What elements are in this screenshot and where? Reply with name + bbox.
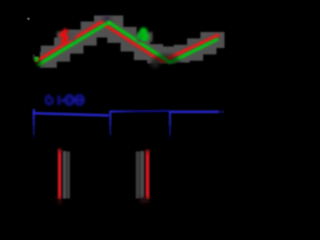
dark vignette over valley crossing xyxy=(152,54,180,70)
staircase (quantized signal, gray) xyxy=(40,24,225,60)
bottom-left red bar xyxy=(58,150,62,200)
dark vignette over trace start xyxy=(30,60,42,69)
blue pulse waveform: second low spike xyxy=(169,111,171,139)
bottom-left gray bar pair xyxy=(63,151,70,199)
dark tick left of start marker xyxy=(33,55,34,61)
gray backdrop behind red label glyph xyxy=(57,32,75,41)
bright green apex spot xyxy=(107,21,111,25)
red label glyph on rising slope xyxy=(62,30,67,44)
bottom-right gray bar pair xyxy=(136,151,144,199)
bottom-right red bar xyxy=(146,151,150,200)
red input trace (triangle wave) xyxy=(36,22,220,62)
bottom-left red bar fade tail xyxy=(58,198,61,204)
bottom-left red bar dark top cap xyxy=(58,148,62,152)
faint dark smudge below the valley xyxy=(151,61,160,68)
gray backdrop behind green label glyph xyxy=(137,32,153,42)
blue right segment fade tail xyxy=(219,111,224,113)
bottom-right red bar dark top cap xyxy=(146,149,150,153)
blue pulse waveform: right high segment xyxy=(171,111,220,114)
blue pulse waveform: left rising edge xyxy=(33,109,35,138)
bottom-right bars fade tail xyxy=(140,198,149,203)
white dot (cursor) top-left xyxy=(27,18,29,20)
blue pulse waveform: narrow low spike xyxy=(109,111,111,138)
faint purple smudge above the peak xyxy=(103,16,111,20)
blue pulse waveform: first high segment xyxy=(33,113,109,115)
green label glyph on falling slope xyxy=(137,28,149,42)
green trace start marker xyxy=(34,57,38,62)
blue pulse waveform: middle high segment (dark) xyxy=(111,110,170,113)
green output trace (triangle wave, delayed) xyxy=(38,22,219,65)
blue annotation text blobs xyxy=(46,95,84,105)
